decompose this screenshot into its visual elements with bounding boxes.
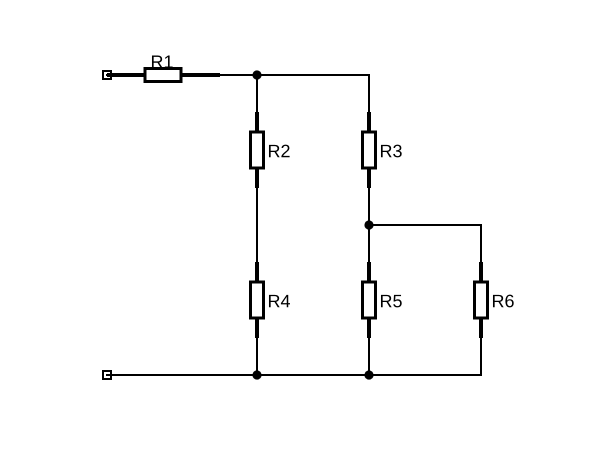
wire node B to corner above R6 [369,224,482,226]
resistor R6 [475,262,514,338]
wire top node down to R2 [256,75,258,113]
wire bottom rail [107,374,482,376]
resistor R2 [251,112,290,188]
resistor R5 [363,262,402,338]
label R5 [381,295,402,308]
resistor R1 [107,56,220,82]
wire R3 through node B to R5 [368,187,370,263]
node B (junction R3 / R5 / R6 branch) [364,220,373,229]
wire R6 to bottom rail [480,337,482,376]
label R4 [269,295,290,307]
label R1 [152,56,173,68]
node A (junction top rail / R2 branch) [252,70,261,79]
label R3 [381,145,402,158]
label R2 [269,145,290,158]
resistor R4 [251,262,290,338]
node D (junction bottom rail / R5) [364,370,373,379]
wire R2 to R4 [256,187,258,263]
wire corner down to R6 [480,224,482,263]
wire corner above R3 down to R3 [368,74,370,113]
wire top rail (R1 to corner above R3) [218,74,370,76]
node C (junction bottom rail / R4) [252,370,261,379]
terminal T2 (bottom-left input) [103,371,114,379]
label R6 [493,295,514,308]
terminal T1 (top-left input) [103,71,114,79]
wire R4 to bottom rail [256,337,258,375]
resistor R3 [363,112,402,188]
wire R5 to bottom rail [368,337,370,375]
